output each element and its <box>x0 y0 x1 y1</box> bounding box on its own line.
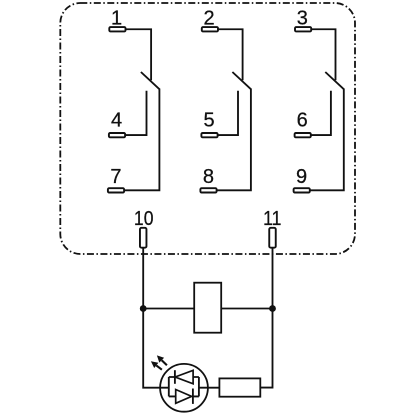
LED diode D1 (points left) wire <box>169 376 199 378</box>
terminal pin 1 <box>109 27 125 31</box>
wire: pin 10 down to node A <box>142 248 144 309</box>
terminal pin 4 <box>109 133 125 137</box>
svg-text:9: 9 <box>296 166 307 188</box>
LED light emission arrow 2 <box>156 365 162 369</box>
LED internal left bar <box>168 377 170 396</box>
terminal pin 11 <box>269 228 276 248</box>
LED diode D2 cathode bar <box>192 389 194 404</box>
wire: open contact to pin 5 <box>218 91 238 135</box>
LED indicator circle <box>160 364 208 412</box>
svg-text:6: 6 <box>297 110 308 132</box>
resistor R1 <box>219 378 260 396</box>
terminal pin 10 <box>140 228 147 248</box>
wire: node A to coil <box>143 308 194 310</box>
node A (junction dot) <box>140 305 147 312</box>
svg-text:8: 8 <box>203 166 214 188</box>
LED internal right bar <box>198 377 200 396</box>
wire: LED to resistor R1 <box>199 387 220 389</box>
LED diode D1 triangle <box>175 370 193 384</box>
wire: pin 3 to switch 3 common <box>311 29 335 80</box>
wire: pin 1 to switch 1 common <box>126 29 152 80</box>
svg-text:11: 11 <box>263 207 281 229</box>
relay enclosure (dash-dot outline) <box>60 3 355 254</box>
svg-text:7: 7 <box>110 166 121 188</box>
node B (junction dot) <box>269 305 276 312</box>
LED diode D2 triangle <box>176 390 192 404</box>
svg-text:3: 3 <box>297 7 308 29</box>
svg-text:5: 5 <box>203 110 214 132</box>
terminal pin 7 <box>108 188 124 192</box>
LED diode D2 (points right) wire <box>169 395 199 397</box>
wire: node A down to LED <box>143 309 169 388</box>
wire: pin 2 to switch 2 common <box>218 29 243 80</box>
wire: open contact to pin 6 <box>311 91 331 135</box>
svg-text:2: 2 <box>204 7 215 29</box>
LED light emission arrow 1 <box>162 360 167 365</box>
wire: pin 11 down to node B <box>272 248 274 309</box>
terminal pin 9 <box>294 188 310 192</box>
svg-text:10: 10 <box>134 207 154 229</box>
wire: blade to pin 8 <box>217 89 251 191</box>
switch blade K3 <box>325 72 344 89</box>
wire: resistor R1 up to node B <box>260 309 272 388</box>
switch blade K1 <box>141 72 160 89</box>
svg-text:4: 4 <box>111 110 122 132</box>
switch blade K2 <box>232 72 251 89</box>
svg-text:1: 1 <box>111 7 122 29</box>
wire: blade to pin 7 <box>125 89 160 191</box>
terminal pin 5 <box>201 133 217 137</box>
LED diode D1 cathode bar <box>174 370 176 384</box>
relay coil <box>194 283 221 333</box>
terminal pin 8 <box>200 188 216 192</box>
terminal pin 3 <box>295 27 311 31</box>
wire: coil to node B <box>221 308 272 310</box>
terminal pin 2 <box>202 27 218 31</box>
wire: blade to pin 9 <box>310 89 344 191</box>
terminal pin 6 <box>295 133 311 137</box>
wire: open contact to pin 4 <box>125 91 146 135</box>
